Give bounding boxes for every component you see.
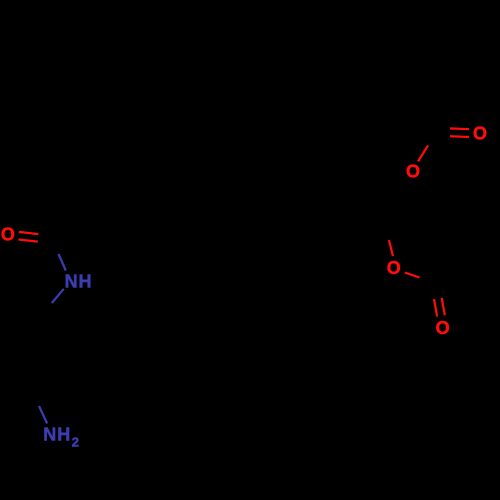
svg-text:O: O (387, 258, 401, 278)
svg-text:O: O (406, 162, 420, 182)
svg-text:NH: NH (65, 272, 93, 292)
svg-text:2: 2 (72, 435, 79, 450)
svg-text:O: O (436, 318, 450, 338)
svg-text:O: O (473, 124, 487, 144)
svg-text:NH: NH (43, 424, 71, 444)
svg-text:O: O (1, 224, 15, 244)
